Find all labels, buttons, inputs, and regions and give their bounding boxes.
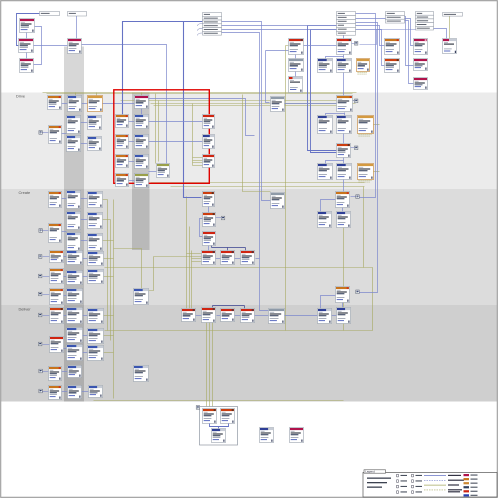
olive stub row1 a — [75, 93, 77, 96]
box K1 task-report-a — [318, 164, 333, 180]
wire icon drive2 — [43, 132, 49, 134]
olive vertical 158 — [158, 101, 160, 162]
wire V1 to S3 — [342, 303, 344, 308]
box K3 task-more — [358, 164, 374, 180]
box X3 email-window — [212, 429, 226, 443]
box E1 report-information — [289, 39, 304, 55]
box G1 report-details-a — [318, 59, 333, 73]
box U1 request-details — [336, 192, 350, 208]
olive wire drive top 1 — [43, 92, 357, 94]
wire I2 to task-detail — [343, 133, 345, 144]
wire E1 left stub — [266, 50, 289, 52]
wire search row1 to request-details icon — [356, 14, 376, 198]
box R3 report-more-win — [203, 155, 215, 168]
olive stub c4 — [104, 258, 114, 260]
wire deliver-red to S1 — [255, 315, 269, 317]
box XD13 strategy-review-details — [89, 386, 103, 398]
wire U1 icon stub — [356, 196, 360, 198]
box K2 task-report-b — [337, 164, 352, 180]
wire portal-main trunk — [123, 22, 203, 115]
box X1 confirm-email-to-requestor — [203, 409, 217, 424]
icon V1 note — [356, 290, 359, 294]
menu App Init — [40, 12, 60, 16]
legend line samples — [424, 475, 461, 476]
icon F1 note — [355, 42, 358, 46]
box F1 report-master — [337, 39, 352, 55]
box I3 create-more — [358, 116, 374, 134]
wire portal to checklist — [82, 45, 167, 164]
box I1 create-report-of-master — [318, 116, 333, 134]
box N1 create-record — [203, 192, 215, 207]
box L4 drive-portlet-4 — [116, 174, 129, 187]
box L2 drive-portlet-2 — [116, 135, 129, 149]
box M1 team-view-1 — [135, 115, 149, 129]
icon H1 note — [355, 99, 358, 103]
wire drive row2 — [81, 122, 88, 124]
wire U1 to U3 — [342, 208, 344, 212]
wire search row left stub a — [308, 25, 337, 27]
wire create-report fanout right — [344, 114, 346, 116]
wire icon deliver3 — [43, 344, 50, 346]
olive about-window drop — [449, 16, 451, 39]
wire X1 to X3 — [210, 424, 219, 429]
box H0 misc window — [271, 97, 285, 112]
box XD7 manage-b — [67, 345, 83, 361]
olive loop create-deliver — [105, 268, 373, 331]
wire appinit to A2 — [17, 14, 40, 46]
wire create-red drop b1 — [211, 246, 213, 248]
icon lc icon5 — [39, 274, 42, 278]
wire search row2 to C1 — [356, 19, 414, 46]
wire V1 icon stub — [356, 292, 360, 294]
wire deliver row3 a — [64, 348, 67, 350]
wire create row4 a — [64, 256, 67, 258]
icon lc icon4 — [39, 255, 42, 259]
box R2 reports-window — [203, 135, 215, 149]
box S2 package-detail-of-deliver — [318, 309, 332, 324]
icon J1 note — [355, 146, 358, 150]
box X2 confirm-email-to-owner — [221, 409, 235, 424]
olive wire red-rect row 1 — [121, 100, 356, 102]
icon ld icon1 — [39, 131, 42, 135]
wire report-master fanout left — [326, 54, 344, 59]
wire G2 to create-report — [343, 73, 345, 96]
box LD3 rate-summary — [88, 96, 103, 112]
box XD3 package-delivered — [88, 309, 104, 324]
box XD9 last-posting — [49, 367, 62, 381]
wire report-master fanout right — [343, 57, 345, 59]
box E3 report — [289, 77, 303, 93]
wire icon create4 — [43, 256, 50, 258]
wire teamhome down — [141, 109, 143, 115]
wire N3 to create-red row — [208, 246, 210, 251]
menu Options — [386, 12, 405, 24]
wire U1 to U2 — [321, 200, 336, 212]
wire create-report fanout left — [326, 113, 345, 116]
box LC13 shared-entity — [67, 271, 83, 285]
wire icon create5 — [43, 276, 50, 278]
box Y1 microsoft-outlook — [260, 428, 274, 443]
wire A2-A3 — [26, 53, 28, 59]
wire create-red link2 — [235, 258, 241, 260]
icon N2 note — [221, 216, 224, 220]
wire L3-M3 — [129, 161, 135, 163]
band Drive — [1, 93, 497, 190]
wire admin row3 to send-job — [222, 22, 271, 201]
olive wire drive top 2 — [47, 93, 353, 95]
icon lc icon6 — [39, 292, 42, 296]
admin menu left hooks — [198, 24, 203, 36]
wire deliver-red link2 — [217, 315, 221, 317]
legend left text — [367, 478, 391, 488]
box XD4 package-b — [67, 328, 83, 343]
box LC7 recycle-in — [67, 233, 81, 251]
box CR3 create-red-3 — [241, 251, 255, 265]
olive vertical under U3 — [343, 228, 345, 331]
box D1 about-window — [443, 39, 457, 54]
wire deliver row4 a — [62, 371, 68, 373]
box L3 drive-portlet-3 — [116, 155, 129, 168]
olive row into create-red 4 — [192, 261, 202, 263]
wire icon create2 — [43, 230, 49, 232]
olive drop to bottom cluster 1 — [206, 323, 208, 407]
wire admin row5 to B2 — [222, 30, 385, 66]
box LC10 ab-records — [67, 251, 83, 265]
box U3 request-detail-totals — [337, 212, 351, 228]
box DR1 deliver-red-1 — [182, 309, 196, 322]
olive stub c3 — [103, 240, 114, 242]
wire search row left stub b — [311, 29, 337, 31]
olive stub from more-box K3 — [373, 171, 380, 173]
box LD1 drive-data — [48, 96, 62, 110]
wire misc-window to create-report — [284, 103, 337, 105]
olive stub d3 — [104, 352, 114, 354]
svg-text:Deliver: Deliver — [19, 307, 32, 312]
legend swatches — [464, 474, 478, 476]
wire L2-M2 — [129, 141, 135, 143]
box S1 deal-list-delayed — [269, 309, 285, 324]
wire V1 to S2 — [321, 296, 336, 309]
wire create row1 b — [81, 198, 88, 200]
olive vertical 189 — [189, 227, 191, 309]
wire K2 to request-details — [343, 179, 345, 192]
olive stub d2 — [104, 335, 114, 337]
box LC16 my-request-to-create — [67, 289, 83, 304]
wire A2 to portal box — [34, 45, 68, 47]
wire drive row1 to teamhome — [103, 103, 135, 105]
olive stub from more-box I3 — [373, 124, 380, 126]
olive stub c1 — [103, 199, 108, 201]
box C3 site-map — [414, 78, 428, 90]
olive stub H0 — [284, 104, 286, 106]
legend icon column 1 — [397, 474, 408, 477]
box B1 set-my-prefs — [385, 39, 400, 55]
olive stub d1 — [104, 315, 114, 317]
olive vertical feeding more-rows — [192, 104, 194, 166]
box M3 team-view-3 — [135, 155, 149, 169]
box XD1 write-package — [50, 308, 64, 324]
box LC1 create-record-l — [49, 192, 62, 208]
wire create row5 a — [64, 276, 67, 278]
box LD5 drive-row2b — [88, 116, 102, 130]
vertical stripe column 1 — [64, 47, 84, 402]
box V1 package-details — [336, 287, 350, 303]
wire N2-N3 elbow — [200, 219, 203, 237]
svg-text:Drive: Drive — [16, 94, 25, 99]
wire N1-N2 — [208, 207, 210, 213]
vertical stripe column 2 — [132, 93, 150, 251]
wire icon deliver4 — [40, 371, 49, 373]
olive vertical 364 — [363, 187, 365, 268]
wire H1 icon stub — [353, 100, 355, 102]
box T1 send-job-results — [271, 193, 285, 209]
box U2 request-detail-of-records — [318, 212, 332, 228]
box J1 task-detail — [337, 144, 351, 158]
olive more-row 2 — [193, 160, 203, 162]
wire S1 to S2 — [285, 315, 318, 317]
box LD4 drive-row2a — [67, 116, 81, 134]
band Create — [1, 189, 497, 305]
wire create-red drop b3 — [245, 248, 247, 251]
wire L4-M4 — [129, 180, 135, 182]
wire create row2 — [81, 219, 88, 221]
wire N2 icon stub — [216, 217, 222, 219]
box R1 win-a-deal — [203, 115, 215, 129]
wire create row1 a — [62, 198, 67, 200]
wire trunk 266 to misc-window — [266, 51, 270, 103]
wire options row2 to C3 — [404, 21, 414, 84]
wire drive row3 — [81, 143, 88, 145]
wire create-red link3 — [256, 258, 260, 260]
wire admin row6 trunk to deal-list — [222, 33, 269, 311]
wire deliver-red bracket — [213, 305, 245, 307]
box LC5 record-in-details — [88, 213, 103, 229]
box M2 team-view-2 — [135, 135, 149, 149]
wire admin row4 to B1 — [222, 26, 385, 46]
olive wire y186 — [171, 186, 365, 188]
wire create row6 a — [64, 295, 67, 297]
wire E2 to E3 — [295, 72, 297, 77]
icon U1 note — [356, 195, 359, 199]
wire deliver-red link1 — [196, 315, 202, 317]
box XD8 manage-b-details — [88, 346, 104, 361]
olive more-row 3 — [193, 162, 203, 164]
olive vertical 191 — [191, 251, 193, 309]
wire deliver row1 a — [64, 315, 67, 317]
box LD7 drive-row3a — [67, 136, 81, 152]
wire M2 to R2 — [149, 141, 203, 143]
box LC8 recycle-details — [88, 234, 103, 251]
olive wire into request-record-view right — [149, 257, 154, 291]
box H1 create-report — [337, 96, 353, 112]
olive left vertical 110 — [110, 220, 112, 341]
box XD6 self-manage-list — [50, 337, 64, 353]
box E2 report-review — [289, 59, 304, 72]
wire M1 to R1 — [149, 121, 203, 123]
more-items squiggle under K3 task-more — [359, 181, 372, 182]
olive drop to bottom cluster 2 — [209, 323, 211, 407]
olive row into create-red 3 — [192, 258, 202, 260]
wire teamhome to mid elbow — [149, 99, 255, 136]
wire search menu to report-master — [343, 36, 345, 39]
box Y2 microsoft-project — [290, 428, 304, 443]
menu Search — [337, 12, 356, 36]
box LC12 my-saved-list — [50, 269, 64, 284]
box P portal home — [68, 39, 82, 54]
box LD2 at-rate — [68, 96, 82, 112]
box CR2 create-red-2 — [221, 251, 235, 265]
wire task-detail fanout right — [343, 161, 345, 164]
wire F1 icon stub — [352, 43, 355, 45]
wire create-red link1 — [216, 258, 221, 260]
box G3 report-more — [357, 59, 370, 72]
olive row into create-red 1 — [187, 253, 202, 255]
wire S2 to S3 — [332, 315, 337, 317]
box CO complete-order-checklist — [157, 164, 170, 178]
box L1 drive-portlet-1 — [116, 115, 129, 128]
wire deliver-red drop2 — [244, 306, 246, 309]
box DR2 deliver-red-2 — [202, 308, 216, 323]
olive stub teamhome — [141, 93, 143, 96]
wire L1-M1 — [129, 121, 135, 123]
wire report-info to report-master — [304, 45, 337, 47]
band Deliver — [1, 305, 497, 402]
olive left vertical 107 — [107, 200, 109, 331]
box Q1 request-record-view — [134, 289, 149, 305]
wire trunk 310 to task-detail — [311, 30, 337, 153]
box Q2 package-record-view — [134, 366, 149, 382]
olive row into create-red 2 — [154, 256, 202, 258]
wire deliver row2 — [83, 335, 88, 337]
box XD11 strategy-detail — [49, 386, 62, 400]
svg-text:Legend: Legend — [365, 470, 375, 474]
box LC9 write-request — [50, 251, 64, 263]
wire trunk drop to create-record — [184, 22, 202, 198]
wire icon deliver1 — [43, 315, 50, 317]
wire A1-A3 loop — [34, 27, 42, 65]
menu Help — [416, 12, 434, 31]
menu Admin — [203, 13, 222, 36]
wire report-master icon link — [360, 30, 433, 45]
wire icon deliver5 — [40, 391, 49, 393]
box LC15 did-not-auction — [50, 289, 64, 305]
wire deliver row3 b — [83, 352, 88, 354]
icon container tag — [196, 406, 199, 410]
box LD6 request-hit — [49, 126, 62, 144]
olive wire into request-record-view top — [114, 249, 142, 289]
wire U1 icon stub2 — [351, 196, 356, 198]
icon xd icon3 — [39, 342, 42, 346]
red highlight rectangle — [114, 90, 210, 184]
wire search row3 to package-details icon — [356, 23, 378, 293]
wire trunk 307 to task-detail — [308, 26, 337, 151]
olive vertical into checklist — [155, 94, 157, 164]
box LC2 all-records — [67, 191, 81, 209]
box XD12 strategy-review — [68, 386, 82, 399]
olive stub c5 — [104, 276, 114, 278]
box C1 access-info — [414, 39, 428, 55]
box N2 request-submission — [203, 213, 216, 227]
wire drive orange2 link — [62, 133, 67, 135]
wire create-red bracket top — [212, 247, 246, 249]
olive more-row 4 — [193, 165, 203, 167]
menu Portal — [68, 12, 87, 17]
box XD5 package-b-details — [88, 329, 104, 344]
more-items squiggle under G3 report-more — [358, 73, 368, 74]
svg-text:Create: Create — [19, 190, 31, 195]
wire deliver row5 a — [62, 391, 68, 393]
icon xd icon5 — [39, 389, 42, 393]
olive vertical 285 — [285, 46, 287, 331]
box C2 browse-help — [414, 59, 428, 71]
menu About Window — [443, 13, 463, 17]
wire deliver-red drop1 — [212, 306, 214, 308]
box A2 login window — [19, 39, 34, 53]
box N3 request-confirmation — [203, 232, 216, 246]
wire portal menu drop — [76, 16, 78, 39]
olive stub row1 b — [96, 93, 98, 96]
olive wire deliver bottom — [94, 400, 344, 402]
box G2 report-details-b — [337, 59, 352, 73]
olive wire red-rect row 2 — [151, 103, 356, 105]
box TH team-home-site — [135, 96, 149, 109]
box XD10 posting-review — [68, 366, 82, 378]
wire options row1 to C2 — [404, 17, 414, 66]
container bottom cluster — [200, 407, 238, 446]
box LD8 drive-row3b — [88, 137, 102, 151]
olive left vertical 114 — [113, 200, 115, 399]
olive stub c2 — [103, 219, 111, 221]
box XD2 ab-package — [67, 308, 83, 324]
legend box — [363, 470, 497, 497]
box LC14 shared-details — [88, 270, 104, 284]
wire create-red drop b2 — [227, 248, 229, 251]
wire help to about-window — [433, 29, 447, 39]
box LC4 record-in-summary — [67, 212, 81, 230]
olive more-row 1 — [193, 157, 203, 159]
wire drive row1 a — [62, 103, 68, 105]
icon xd icon4 — [39, 369, 42, 373]
box CR1 create-red-1 — [202, 251, 216, 265]
olive stub E1 — [286, 45, 289, 47]
wire M3 to checklist — [149, 171, 157, 173]
wire create row3 — [81, 240, 88, 242]
box M4 team-view-4 — [135, 174, 149, 188]
more-items squiggle under I3 create-more — [359, 135, 372, 136]
wire X2 to X3 — [219, 424, 229, 427]
wire deliver row5 b — [82, 391, 89, 393]
box LC11 ab-rec-details — [88, 252, 104, 266]
wire create row5 b — [83, 276, 88, 278]
box A1 app window — [20, 19, 35, 33]
box A3 cant-access window — [20, 59, 34, 73]
wire drive row1 b — [82, 103, 88, 105]
wire task-detail fanout left — [326, 158, 344, 164]
wire A1-A2 — [26, 33, 28, 39]
wire create row4 b — [83, 258, 88, 260]
icon xd icon1 — [39, 313, 42, 317]
box S3 package-detail-add — [337, 308, 351, 324]
olive drop to bottom cluster 3 — [212, 323, 214, 407]
box DR3 deliver-red-3 — [221, 309, 235, 322]
wire J1 icon stub — [351, 147, 355, 149]
wire E1 to E2 — [295, 55, 297, 59]
box LC6 get-record-list — [49, 224, 62, 243]
olive wire red-rect row 3 — [154, 105, 351, 107]
box LC3 all-records-details — [88, 192, 103, 208]
box DR4 deliver-red-4 — [241, 309, 255, 323]
box I2 create-report-master — [337, 116, 352, 134]
